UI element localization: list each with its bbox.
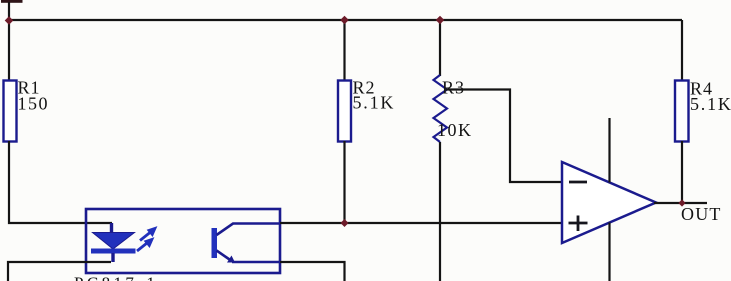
- wire R2 bottom: [343, 141, 345, 223]
- junction VCC left: [5, 16, 14, 25]
- svg-text:10K: 10K: [437, 120, 473, 140]
- op-amp minus sign: [569, 181, 587, 184]
- phototransistor collector: [217, 224, 281, 236]
- resistor R4: [675, 81, 689, 142]
- light arrow 1: [140, 227, 157, 241]
- wire R2 top: [343, 20, 345, 82]
- resistor R3 zigzag: [434, 75, 448, 142]
- light arrow 2: [137, 238, 154, 251]
- phototransistor emitter with arrow: [217, 251, 281, 263]
- resistor R1: [4, 81, 17, 142]
- svg-text:5.1K: 5.1K: [690, 94, 731, 114]
- op-amp U2 triangle: [562, 162, 656, 243]
- wire top rail: [8, 19, 682, 21]
- op-amp plus sign: [569, 216, 588, 232]
- phototransistor Q1 base bar: [212, 228, 218, 258]
- resistor R2: [338, 81, 351, 142]
- op-amp V+ pin: [608, 118, 610, 183]
- svg-text:150: 150: [18, 94, 50, 114]
- power bar VCC: [1, 0, 23, 3]
- wire VCC stub: [8, 2, 10, 20]
- wire R4 top: [681, 20, 683, 82]
- wire LED cathode to bottom left: [8, 262, 111, 281]
- wire output: [654, 202, 707, 204]
- op-amp V- pin: [608, 223, 610, 281]
- wire R3 tap to op-amp inverting input: [446, 90, 561, 183]
- LED cathode bar: [91, 249, 136, 254]
- svg-text:5.1K: 5.1K: [353, 93, 396, 113]
- wire R4 bottom to output: [681, 141, 683, 203]
- wire R1 top: [8, 20, 10, 82]
- junction R2 top: [340, 16, 349, 25]
- LED D1 triangle: [93, 233, 135, 250]
- wire R1 bottom to opto: [9, 141, 112, 223]
- svg-text:R3: R3: [442, 78, 465, 98]
- wire collector to junction: [280, 222, 345, 224]
- wire junction to op-amp non-inverting input: [345, 222, 562, 224]
- junction non-inverting node: [341, 219, 349, 227]
- junction R3 top: [436, 16, 445, 25]
- junction output node: [678, 199, 685, 206]
- LED cathode stub: [111, 253, 114, 262]
- wire R3 top: [439, 20, 441, 76]
- LED anode stub: [110, 223, 113, 234]
- svg-text:PC817-1: PC817-1: [74, 274, 158, 281]
- wire R3 bottom: [439, 142, 441, 281]
- optocoupler U1 box: [86, 209, 280, 273]
- svg-text:OUT: OUT: [681, 204, 722, 224]
- wire emitter to bottom: [280, 262, 345, 281]
